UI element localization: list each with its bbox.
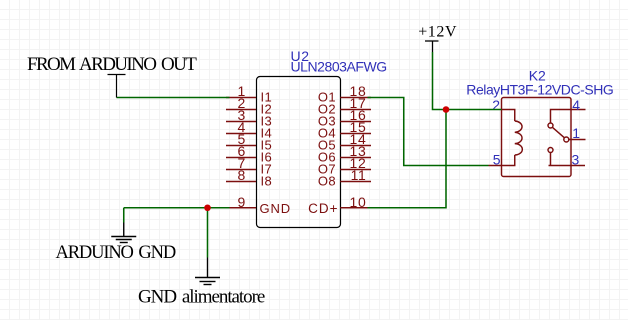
svg-text:I8: I8 [261, 174, 273, 189]
svg-text:2: 2 [492, 97, 500, 113]
svg-text:9: 9 [238, 194, 246, 210]
svg-text:10: 10 [350, 194, 367, 210]
svg-text:11: 11 [351, 167, 367, 183]
svg-text:ULN2803AFWG: ULN2803AFWG [291, 59, 387, 75]
svg-text:8: 8 [238, 167, 246, 183]
svg-text:+12V: +12V [418, 23, 457, 40]
svg-text:1: 1 [572, 125, 580, 141]
svg-text:FROM ARDUINO OUT: FROM ARDUINO OUT [27, 54, 197, 75]
svg-text:GND alimentatore: GND alimentatore [138, 287, 265, 308]
svg-text:5: 5 [493, 152, 501, 168]
svg-text:ARDUINO GND: ARDUINO GND [56, 243, 176, 263]
svg-text:CD+: CD+ [308, 201, 338, 216]
svg-text:O8: O8 [318, 174, 336, 189]
svg-text:3: 3 [572, 152, 580, 168]
svg-text:GND: GND [260, 201, 292, 216]
svg-text:RelayHT3F-12VDC-SHG: RelayHT3F-12VDC-SHG [466, 82, 613, 98]
svg-text:4: 4 [572, 97, 580, 113]
